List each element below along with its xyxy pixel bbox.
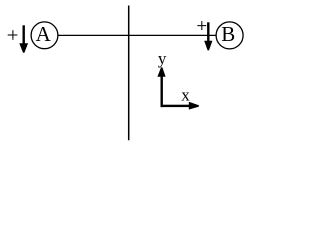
svg-text:y: y [158,49,167,68]
svg-text:B: B [221,22,235,46]
x axis [161,102,199,110]
plus label (right source polarity) [197,21,206,30]
svg-text:x: x [181,86,190,105]
wire (horizontal from A to B) [58,34,217,36]
node B circle [216,22,243,49]
arrow (left, downward) [19,25,28,52]
node A circle [31,22,58,49]
svg-text:A: A [36,22,52,46]
y axis [157,67,165,107]
arrow (right, downward) [204,22,212,50]
plus label (left source polarity) [8,30,18,40]
vertical rail (center line) [128,6,130,141]
